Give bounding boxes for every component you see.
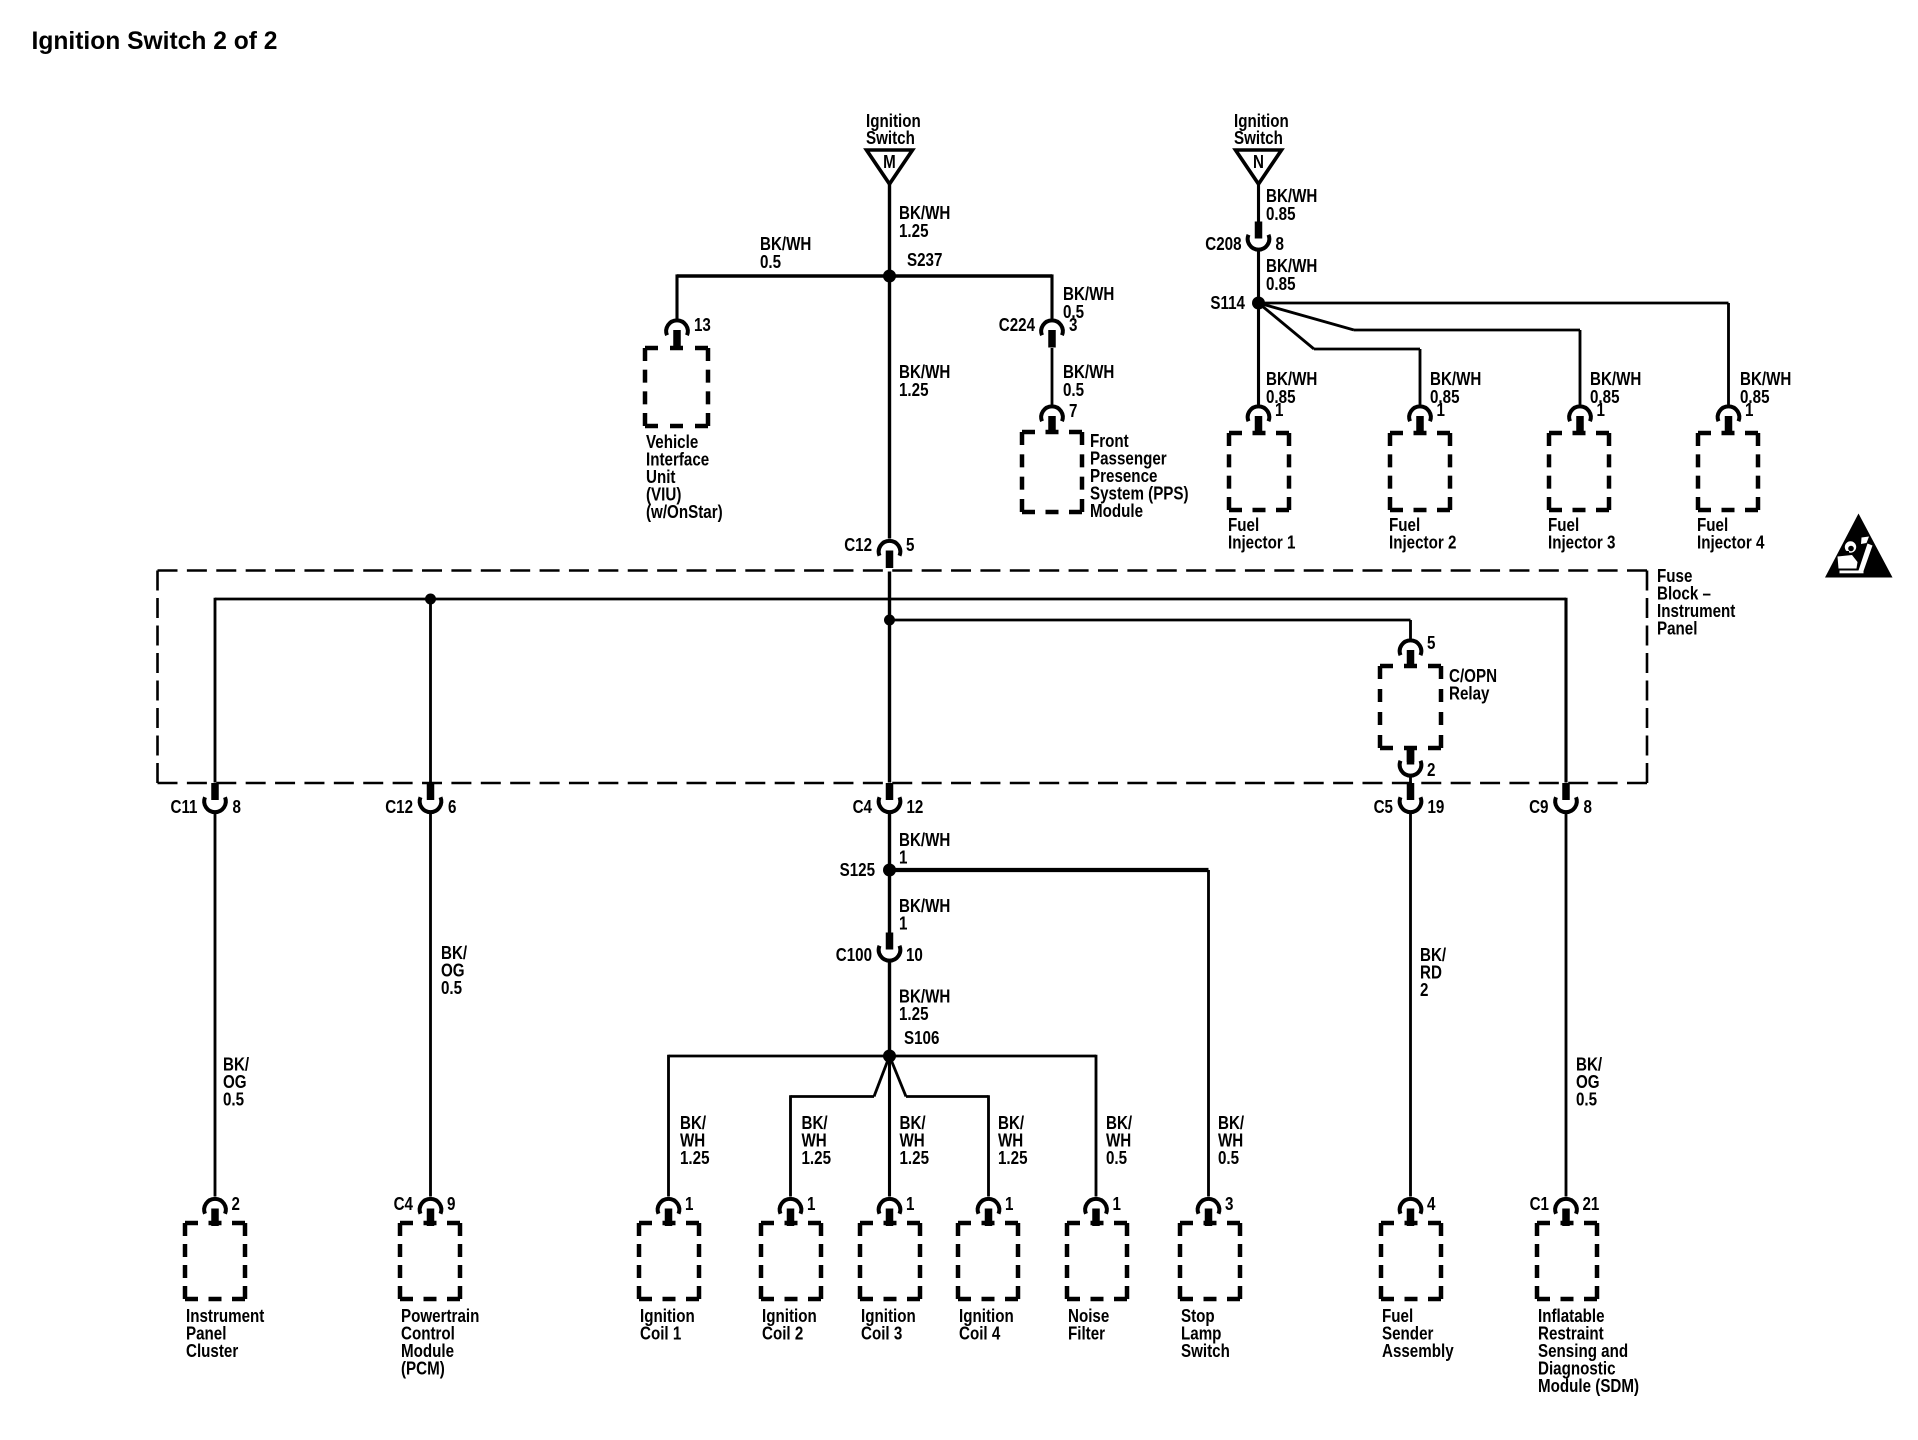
connector C1 pin 21 of SDM xyxy=(1530,1194,1600,1226)
label BK/WH 0.5 xyxy=(760,234,811,273)
svg-text:Coil 2: Coil 2 xyxy=(762,1323,803,1344)
wire C100 to S106 BK/WH 1.25 xyxy=(888,962,891,1056)
svg-text:Switch: Switch xyxy=(866,128,915,149)
connector pin 2 of C/OPN relay xyxy=(1400,748,1436,781)
svg-text:12: 12 xyxy=(907,797,924,818)
svg-text:1.25: 1.25 xyxy=(680,1148,710,1169)
power source triangle M (Ignition Switch) xyxy=(866,111,921,184)
label BK/ WH 1.25 xyxy=(680,1113,710,1169)
label BK/ WH 0.5 (noise filter) xyxy=(1106,1113,1132,1169)
title: Ignition Switch 2 of 2 xyxy=(32,28,278,55)
svg-text:C5: C5 xyxy=(1374,797,1393,818)
svg-text:1.25: 1.25 xyxy=(900,1148,930,1169)
svg-text:Coil 1: Coil 1 xyxy=(640,1323,681,1344)
svg-text:1: 1 xyxy=(1005,1194,1013,1215)
wire BK/WH 1.25 from M to S237 xyxy=(888,183,891,276)
power source triangle N (Ignition Switch) xyxy=(1234,111,1289,184)
svg-text:0.5: 0.5 xyxy=(760,252,781,273)
connector pin 4 of Fuel Sender Assembly xyxy=(1400,1194,1436,1226)
wire S237 left branch BK/WH 0.5 xyxy=(677,274,890,319)
connector pin 1 of Ignition Coil 1 xyxy=(658,1194,694,1226)
wire S114 to Fuel Injector 4 xyxy=(1259,303,1729,405)
label BK/ WH 0.5 (stop lamp) xyxy=(1218,1113,1244,1169)
wire S114 to Fuel Injector 1 xyxy=(1257,303,1260,405)
svg-text:1: 1 xyxy=(1597,400,1605,421)
svg-text:(PCM): (PCM) xyxy=(401,1358,445,1379)
svg-text:1: 1 xyxy=(685,1194,693,1215)
svg-text:13: 13 xyxy=(694,315,711,336)
connector C5 pin 19 (fuse block bottom) xyxy=(1374,783,1445,817)
label BK/ OG 0.5 xyxy=(1576,1054,1602,1110)
wire BK/WH 0.85 from N to C208 xyxy=(1257,183,1260,222)
splice S125 xyxy=(840,860,896,881)
wire BK/WH 1.25 from S237 down to C12 xyxy=(888,276,891,539)
connector C224 pin 3 xyxy=(999,315,1078,348)
wire S106 to Ignition Coil 3 xyxy=(888,1056,891,1197)
svg-text:8: 8 xyxy=(1584,797,1592,818)
connector pin 1 of Ignition Coil 3 xyxy=(879,1194,915,1226)
wire S106 to Ignition Coil 2 xyxy=(791,1056,890,1197)
svg-text:S125: S125 xyxy=(840,860,875,881)
label BK/WH 0.85 xyxy=(1266,186,1317,225)
label BK/ WH 1.25 xyxy=(802,1113,832,1169)
svg-text:2: 2 xyxy=(232,1194,240,1215)
fuse block internal wire to C/OPN relay xyxy=(890,620,1411,639)
label BK/ OG 0.5 xyxy=(223,1054,249,1110)
svg-text:C224: C224 xyxy=(999,315,1036,336)
svg-text:C4: C4 xyxy=(853,797,873,818)
label BK/ OG 0.5 xyxy=(441,943,467,999)
svg-text:Panel: Panel xyxy=(1657,618,1697,639)
component Fuel Sender Assembly xyxy=(1381,1223,1454,1361)
svg-text:2: 2 xyxy=(1420,980,1428,1001)
svg-text:Module (SDM): Module (SDM) xyxy=(1538,1376,1639,1397)
label BK/WH 0.5 xyxy=(1063,284,1114,323)
svg-text:4: 4 xyxy=(1427,1194,1436,1215)
connector pin 1 of Fuel Injector 4 xyxy=(1718,400,1754,434)
svg-text:1: 1 xyxy=(1745,400,1753,421)
svg-text:C12: C12 xyxy=(385,797,413,818)
svg-text:M: M xyxy=(883,152,896,173)
svg-text:1: 1 xyxy=(807,1194,815,1215)
svg-text:8: 8 xyxy=(233,797,241,818)
label BK/WH 0.85 (injector 3) xyxy=(1590,369,1641,408)
component Fuel Injector 3 xyxy=(1548,433,1615,553)
component Stop Lamp Switch xyxy=(1180,1223,1240,1361)
connector C9 pin 8 (fuse block bottom) xyxy=(1529,783,1592,817)
connector pin 1 of Fuel Injector 3 xyxy=(1569,400,1605,434)
connector pin 3 of Stop Lamp Switch xyxy=(1198,1194,1234,1226)
wire C11-8 to Instrument Panel Cluster BK/OG 0.5 xyxy=(214,814,217,1197)
airbag SIR warning icon xyxy=(1825,514,1893,578)
svg-text:Filter: Filter xyxy=(1068,1323,1105,1344)
svg-text:Injector 3: Injector 3 xyxy=(1548,532,1615,553)
svg-text:1.25: 1.25 xyxy=(998,1148,1028,1169)
component Fuel Injector 4 xyxy=(1697,433,1765,553)
svg-text:9: 9 xyxy=(447,1194,455,1215)
svg-text:1.25: 1.25 xyxy=(899,221,929,242)
wire C12-5 into fuse block (main vertical) xyxy=(888,572,891,783)
svg-text:Switch: Switch xyxy=(1181,1341,1230,1362)
svg-text:1: 1 xyxy=(1437,400,1445,421)
svg-text:C9: C9 xyxy=(1529,797,1548,818)
component Front Passenger Presence System (PPS) Module xyxy=(1022,431,1189,522)
label BK/WH 0.85 xyxy=(1266,256,1317,295)
svg-text:Injector 1: Injector 1 xyxy=(1228,532,1295,553)
label BK/WH 1 xyxy=(899,896,950,934)
wire C9-8 to SDM BK/OG 0.5 xyxy=(1565,814,1568,1197)
wire S114 to Fuel Injector 2 xyxy=(1259,303,1421,405)
label BK/WH 0.5 xyxy=(1063,362,1114,401)
label BK/ WH 1.25 xyxy=(900,1113,930,1169)
label BK/WH 1.25 xyxy=(899,986,950,1024)
component C/OPN Relay xyxy=(1380,666,1497,748)
connector pin 5 of C/OPN relay xyxy=(1400,633,1436,668)
component Ignition Coil 4 xyxy=(958,1223,1018,1344)
svg-text:1: 1 xyxy=(1275,400,1283,421)
label BK/WH 0.85 (injector 1) xyxy=(1266,369,1317,408)
connector C100 pin 10 xyxy=(836,933,923,966)
fuse block - instrument panel dashed box xyxy=(158,566,1736,783)
wire C5-19 to Fuel Sender BK/RD 2 xyxy=(1409,814,1412,1197)
junction main vertical to relay feed xyxy=(884,615,895,626)
splice S237 xyxy=(883,250,942,283)
svg-text:1.25: 1.25 xyxy=(802,1148,832,1169)
wire BK/WH 0.85 from C208 to S114 xyxy=(1257,251,1260,303)
svg-text:3: 3 xyxy=(1069,315,1077,336)
component Ignition Coil 2 xyxy=(761,1223,821,1344)
connector pin 1 of Ignition Coil 4 xyxy=(978,1194,1014,1226)
svg-text:19: 19 xyxy=(1428,797,1445,818)
svg-text:8: 8 xyxy=(1276,234,1284,255)
component Vehicle Interface Unit (VIU) (w/OnStar) xyxy=(645,348,723,522)
label BK/ WH 1.25 xyxy=(998,1113,1028,1169)
svg-text:C12: C12 xyxy=(844,535,872,556)
svg-text:0.5: 0.5 xyxy=(1576,1089,1597,1110)
svg-text:Cluster: Cluster xyxy=(186,1341,239,1362)
splice S106 xyxy=(883,1028,939,1063)
svg-text:Injector 4: Injector 4 xyxy=(1697,532,1765,553)
svg-text:Module: Module xyxy=(1090,501,1143,522)
wire C4-12 BK/WH 1 to S125 xyxy=(888,814,891,935)
connector pin 1 of Fuel Injector 2 xyxy=(1409,400,1445,434)
svg-text:C100: C100 xyxy=(836,945,872,966)
label BK/WH 1 xyxy=(899,830,950,868)
svg-text:1: 1 xyxy=(906,1194,914,1215)
svg-text:Injector 2: Injector 2 xyxy=(1389,532,1456,553)
svg-text:C11: C11 xyxy=(171,797,198,818)
wire S106 to Ignition Coil 1 BK/WH 1.25 xyxy=(669,1055,890,1197)
svg-text:C4: C4 xyxy=(394,1194,414,1215)
connector pin 1 of Ignition Coil 2 xyxy=(780,1194,816,1226)
wire S106 to Noise Filter BK/WH 0.5 xyxy=(890,1055,1097,1197)
svg-text:Coil 4: Coil 4 xyxy=(959,1323,1001,1344)
svg-text:10: 10 xyxy=(906,945,923,966)
fuse block internal bus upper (to C11, C12, C9) xyxy=(215,598,1566,783)
connector C12 pin 5 (fuse block top) xyxy=(844,535,914,568)
svg-text:7: 7 xyxy=(1069,401,1077,422)
svg-text:1.25: 1.25 xyxy=(899,380,929,401)
component Fuel Injector 2 xyxy=(1389,433,1456,553)
svg-text:(w/OnStar): (w/OnStar) xyxy=(646,502,723,523)
svg-text:Switch: Switch xyxy=(1234,128,1283,149)
connector pin 2 of Instrument Panel Cluster xyxy=(204,1194,240,1226)
component Noise Filter xyxy=(1067,1223,1127,1344)
wire BK/WH 0.5 from C224 to PPS xyxy=(1051,348,1054,405)
svg-text:S106: S106 xyxy=(904,1028,939,1049)
svg-text:1: 1 xyxy=(899,913,907,934)
svg-text:Ignition Switch 2 of 2: Ignition Switch 2 of 2 xyxy=(32,28,278,55)
junction on bus at C12 column xyxy=(425,594,436,783)
svg-text:1: 1 xyxy=(1113,1194,1121,1215)
component Instrument Panel Cluster xyxy=(185,1223,265,1361)
svg-text:2: 2 xyxy=(1427,760,1435,781)
connector C4 pin 12 (fuse block bottom) xyxy=(853,783,924,817)
component Inflatable Restraint Sensing and Diagnostic Module (SDM) xyxy=(1537,1223,1639,1396)
svg-text:Assembly: Assembly xyxy=(1382,1341,1454,1362)
connector C4 pin 9 of PCM xyxy=(394,1194,456,1226)
label BK/WH 0.85 (injector 4) xyxy=(1740,369,1791,408)
wire S106 to Ignition Coil 4 xyxy=(890,1056,989,1197)
connector C11 pin 8 (fuse block bottom) xyxy=(171,783,241,817)
svg-text:3: 3 xyxy=(1225,1194,1233,1215)
component Powertrain Control Module (PCM) xyxy=(400,1223,479,1379)
connector pin 7 of PPS module xyxy=(1041,401,1077,434)
svg-text:0.5: 0.5 xyxy=(1106,1148,1127,1169)
component Ignition Coil 3 xyxy=(860,1223,920,1344)
wire relay pin 2 to C5 xyxy=(1409,777,1412,784)
svg-text:21: 21 xyxy=(1583,1194,1600,1215)
label BK/WH 0.85 (injector 2) xyxy=(1430,369,1481,408)
svg-text:0.85: 0.85 xyxy=(1266,274,1296,295)
svg-text:1.25: 1.25 xyxy=(899,1004,929,1025)
wire S114 to Fuel Injector 3 xyxy=(1259,303,1581,405)
svg-text:S114: S114 xyxy=(1210,293,1245,314)
svg-text:N: N xyxy=(1253,152,1264,173)
svg-text:0.85: 0.85 xyxy=(1266,204,1296,225)
svg-text:6: 6 xyxy=(448,797,456,818)
svg-text:C1: C1 xyxy=(1530,1194,1549,1215)
connector pin 1 of Noise Filter xyxy=(1085,1194,1121,1226)
label BK/WH 1.25 xyxy=(899,203,950,242)
svg-text:0.5: 0.5 xyxy=(223,1089,244,1110)
connector pin 13 of VIU xyxy=(666,315,711,348)
wire S237 right branch to C224 xyxy=(890,274,1053,318)
connector pin 1 of Fuel Injector 1 xyxy=(1248,400,1284,434)
splice S114 xyxy=(1210,293,1265,314)
svg-text:S237: S237 xyxy=(907,250,942,271)
svg-text:C208: C208 xyxy=(1205,234,1241,255)
wire S125 to Stop Lamp Switch BK/WH 0.5 xyxy=(890,870,1209,1197)
wire C12-6 to PCM BK/OG 0.5 xyxy=(429,814,432,1197)
svg-text:Coil 3: Coil 3 xyxy=(861,1323,902,1344)
svg-text:1: 1 xyxy=(899,847,907,868)
svg-text:0.5: 0.5 xyxy=(1063,380,1084,401)
connector C208 pin 8 xyxy=(1205,222,1284,255)
label BK/ RD 2 xyxy=(1420,945,1446,1001)
component Ignition Coil 1 xyxy=(639,1223,699,1344)
connector C12 pin 6 (fuse block bottom) xyxy=(385,783,456,817)
label BK/WH 1.25 xyxy=(899,362,950,401)
svg-text:5: 5 xyxy=(1427,633,1435,654)
component Fuel Injector 1 xyxy=(1228,433,1295,553)
svg-text:0.5: 0.5 xyxy=(441,978,462,999)
svg-text:0.5: 0.5 xyxy=(1218,1148,1239,1169)
svg-text:5: 5 xyxy=(906,535,914,556)
svg-text:Relay: Relay xyxy=(1449,683,1490,704)
